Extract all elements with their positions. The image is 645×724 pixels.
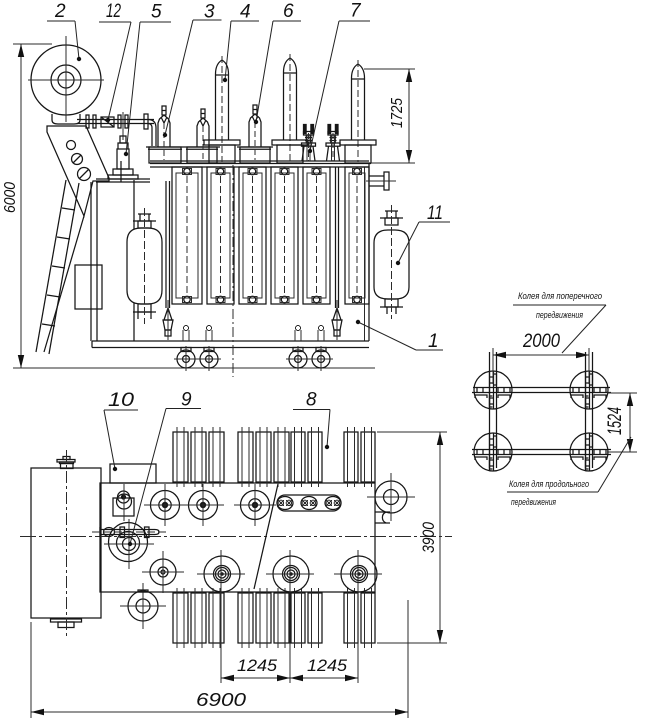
- plan tank outline: [100, 483, 390, 592]
- svg-text:передвижения: передвижения: [511, 497, 556, 507]
- bottom fin x=209: [209, 588, 224, 648]
- wheel at x=321: [312, 326, 330, 372]
- svg-text:1245: 1245: [307, 656, 348, 675]
- svg-text:10: 10: [108, 390, 135, 411]
- drum saddle: [52, 114, 80, 124]
- gap pipe + drain right: [332, 167, 342, 340]
- callout 12: [99, 1, 131, 122]
- svg-text:6900: 6900: [196, 690, 246, 710]
- top fin x=308: [308, 427, 322, 487]
- tank body side: [91, 161, 371, 341]
- dimension 6900: [31, 600, 408, 718]
- callout 4: [223, 2, 259, 83]
- callout 1: [356, 320, 443, 352]
- ground line: [13, 367, 375, 369]
- left wall box: [75, 265, 102, 309]
- radiator panel 5: [303, 167, 330, 304]
- svg-text:12: 12: [106, 1, 121, 22]
- top fin x=238: [238, 427, 253, 487]
- top fin x=209: [209, 427, 224, 487]
- tall bushing at x=358: [340, 60, 376, 163]
- svg-text:3900: 3900: [419, 522, 438, 553]
- lower circle 2: [197, 550, 245, 598]
- svg-text:1: 1: [428, 331, 439, 352]
- radiator panel 3: [239, 167, 266, 304]
- svg-text:11: 11: [427, 203, 443, 224]
- callout 10: [104, 390, 138, 471]
- top fin x=256: [256, 427, 271, 487]
- fork bushing at x=333 (7b): [326, 125, 340, 162]
- control box (10): [110, 464, 156, 483]
- pipe assembly (12): [77, 114, 156, 146]
- bottom fin x=291: [291, 588, 305, 648]
- turret T2: [184, 147, 220, 163]
- svg-text:1725: 1725: [389, 98, 406, 128]
- dimension 2000: [493, 331, 589, 384]
- bottom fin x=344: [344, 588, 358, 648]
- tall bushing at x=290: [272, 54, 308, 163]
- track wheel top-left: [474, 371, 512, 409]
- bottom fin x=308: [308, 588, 322, 648]
- drive circle: [104, 519, 154, 569]
- radiator panels: [172, 167, 369, 304]
- wheel at x=186: [177, 326, 195, 372]
- track rails horizontal: [472, 388, 611, 455]
- bottom fin x=256: [256, 588, 271, 648]
- bottom fin x=238: [238, 588, 253, 648]
- svg-text:2: 2: [54, 1, 66, 22]
- conservator tank plan: [31, 450, 101, 636]
- bottom circle: [120, 583, 166, 629]
- callout 7: [308, 1, 370, 154]
- svg-text:Колея для поперечного: Колея для поперечного: [518, 291, 602, 301]
- dimension 3900: [377, 432, 447, 643]
- bottom fin x=191: [191, 588, 206, 648]
- svg-text:6: 6: [283, 1, 294, 22]
- top fin x=191: [191, 427, 206, 487]
- fork bushing at x=255 (6): [249, 105, 261, 160]
- drive mechanism (9): [92, 519, 166, 569]
- svg-text:7: 7: [350, 1, 362, 22]
- svg-text:Колея для продольного: Колея для продольного: [509, 479, 589, 489]
- upper bushing circle 3: [234, 484, 276, 526]
- lower circle 3: [266, 550, 314, 598]
- radiator panel 2: [207, 167, 234, 304]
- tank centerline below: [232, 165, 234, 377]
- dimension 6000: [2, 44, 52, 368]
- fork bushing at x=203: [197, 109, 209, 160]
- cable drum (2): [28, 36, 104, 122]
- radiator panel 1: [172, 167, 202, 304]
- plan horizontal centerline: [20, 536, 452, 538]
- wheel at x=298: [289, 326, 307, 372]
- turret T3 under bushing 6: [237, 147, 273, 163]
- radiator panel 4: [271, 167, 298, 304]
- turret T1 under bushing 3: [146, 147, 184, 163]
- upper bushing circle 2: [182, 484, 224, 526]
- bottom fin x=361: [361, 588, 375, 648]
- base plate: [92, 341, 369, 348]
- lower circle 1: [142, 551, 184, 593]
- tall bushing at x=222 (4): [204, 56, 240, 163]
- ladder: [36, 180, 84, 354]
- radiator panel 6: [345, 167, 369, 304]
- svg-text:6000: 6000: [2, 182, 19, 213]
- small bushing circle a: [113, 484, 134, 521]
- diagonal shaft line: [254, 484, 278, 589]
- upper bushing circle 1: [144, 484, 186, 526]
- track wheel bottom-left: [474, 433, 512, 471]
- callout 2: [47, 1, 81, 61]
- right flange stub top: [366, 172, 396, 190]
- capsule tank 11: [374, 205, 409, 319]
- callout 9: [128, 390, 201, 547]
- dimension 1725: [364, 69, 415, 163]
- track rails vertical: [490, 352, 593, 468]
- top fin x=173: [173, 427, 188, 487]
- left capsule tank: [127, 208, 162, 324]
- dimensions 1245 + 1245: [221, 594, 358, 683]
- svg-text:4: 4: [240, 2, 251, 23]
- fork bushing at x=164 (3): [158, 106, 170, 160]
- top fin x=274: [274, 427, 289, 487]
- label: track for longitudinal movement: [507, 437, 631, 507]
- callout 8: [293, 390, 330, 450]
- manifold with three flanges: [277, 495, 341, 511]
- top fin x=291: [291, 427, 305, 487]
- svg-text:8: 8: [306, 390, 317, 411]
- bracket: [47, 126, 109, 216]
- svg-text:2000: 2000: [522, 331, 560, 352]
- svg-text:1245: 1245: [237, 656, 278, 675]
- svg-text:9: 9: [181, 390, 192, 411]
- wheel at x=209: [200, 326, 218, 372]
- top fin x=361: [361, 427, 375, 487]
- track wheel bottom-right: [570, 433, 608, 471]
- svg-text:передвижения: передвижения: [536, 310, 583, 320]
- callout 6: [254, 1, 301, 124]
- bottom fin x=173: [173, 588, 188, 648]
- svg-text:3: 3: [204, 2, 215, 23]
- svg-text:1524: 1524: [605, 407, 626, 435]
- lower circle 4: [334, 550, 382, 598]
- right circle: [367, 473, 415, 521]
- fork bushing at x=308.5 (7a): [302, 125, 316, 162]
- track wheel top-right: [570, 371, 608, 409]
- gap pipe + drain left: [163, 181, 173, 340]
- bushing 5 on pedestal: [96, 112, 150, 182]
- top fin x=344: [344, 427, 358, 487]
- wheels: [174, 326, 333, 372]
- callout 3: [163, 2, 222, 138]
- bottom fin x=274: [274, 588, 289, 648]
- callout 5: [124, 2, 171, 157]
- svg-text:5: 5: [151, 2, 162, 23]
- label: track for transverse movement: [513, 291, 606, 353]
- callout 11: [396, 203, 450, 265]
- dimension 1524: [605, 393, 637, 452]
